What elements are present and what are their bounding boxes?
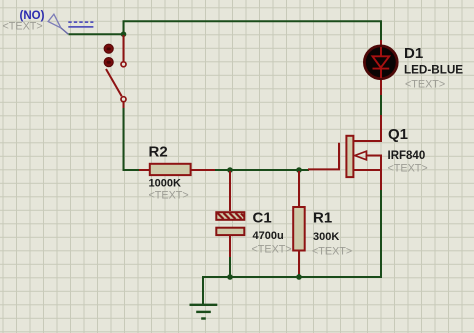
node D junction (C1 bottom rail) — [227, 274, 233, 280]
wire: R2 right to gate net — [214, 169, 309, 171]
switch button upper — [104, 44, 113, 53]
LED D1 diode symbol — [373, 47, 390, 78]
switch actuator dashed line — [68, 21, 93, 23]
LED D1 body circle — [364, 46, 397, 79]
transistor Q1 gate lead — [308, 143, 339, 170]
svg-text:<TEXT>: <TEXT> — [3, 21, 43, 33]
svg-text:4700u: 4700u — [253, 230, 284, 242]
switch terminal 1 — [121, 62, 126, 67]
switch actuator link line — [61, 28, 68, 34]
svg-text:<TEXT>: <TEXT> — [149, 189, 189, 201]
transistor Q1 channel bar — [346, 136, 353, 177]
wire: R1 bottom green segment — [298, 273, 300, 277]
svg-text:1000K: 1000K — [149, 177, 181, 189]
capacitor C1 bottom pin — [229, 235, 231, 257]
node C junction (R1 top/gate) — [296, 167, 302, 173]
resistor R2 left pin — [139, 169, 150, 171]
svg-text:LED-BLUE: LED-BLUE — [404, 64, 463, 77]
wire: junction A up and across top to D1 — [124, 21, 382, 41]
svg-text:<TEXT>: <TEXT> — [252, 244, 292, 256]
capacitor C1 bottom plate — [216, 228, 244, 235]
resistor R1 top pin — [298, 171, 300, 207]
wire: Q1 source down to bottom rail — [380, 189, 382, 277]
capacitor C1 top pin — [229, 171, 231, 211]
switch button lower — [104, 58, 113, 67]
wire: C1 bottom green segment — [229, 256, 231, 277]
svg-text:<TEXT>: <TEXT> — [388, 163, 428, 175]
svg-text:Q1: Q1 — [388, 126, 408, 143]
svg-text:IRF840: IRF840 — [388, 150, 426, 162]
svg-text:<TEXT>: <TEXT> — [405, 79, 445, 91]
resistor R2 right pin — [191, 169, 215, 171]
transistor Q1 source lead — [353, 170, 381, 190]
capacitor C1 top plate (hatched) — [216, 212, 244, 220]
wire: bottom ground rail — [203, 277, 382, 304]
switch top pin — [123, 35, 125, 62]
LED D1 bottom pin — [380, 79, 382, 95]
switch actuator solid line — [68, 26, 93, 28]
resistor R1 bottom pin — [298, 251, 300, 275]
LED D1 top pin — [380, 40, 382, 46]
svg-text:R1: R1 — [313, 210, 332, 227]
svg-text:R2: R2 — [149, 144, 168, 161]
wire: D1 cathode to Q1 drain — [380, 94, 382, 116]
svg-text:C1: C1 — [253, 210, 272, 227]
switch lever — [106, 69, 122, 96]
resistor R2 body — [150, 164, 191, 175]
wire: switch bottom down to R2 corner — [124, 104, 141, 170]
resistor R1 body — [293, 207, 305, 251]
svg-text:<TEXT>: <TEXT> — [312, 246, 352, 258]
transistor Q1 body lead — [366, 156, 381, 171]
switch actuator triangle — [48, 14, 61, 28]
node A junction (switch/top wire) — [121, 31, 127, 37]
ground — [190, 305, 218, 319]
svg-text:300K: 300K — [313, 231, 339, 243]
svg-text:D1: D1 — [404, 45, 423, 62]
transistor Q1 body arrow — [355, 151, 367, 160]
switch terminal 2 — [121, 97, 126, 102]
transistor Q1 drain lead — [353, 115, 381, 141]
node B junction (R2/C1) — [227, 167, 233, 173]
wire: switch actuator to junction A — [69, 33, 124, 35]
node E junction (R1 bottom rail) — [296, 274, 302, 280]
switch bottom pin — [123, 102, 125, 108]
